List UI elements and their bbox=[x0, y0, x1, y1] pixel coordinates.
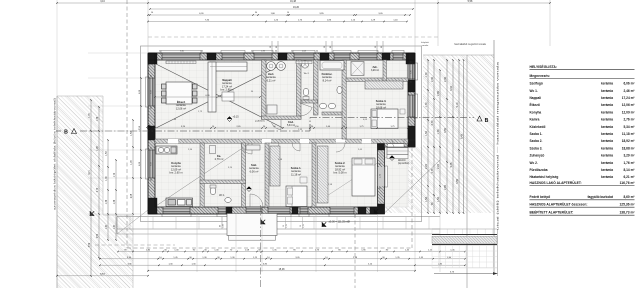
svg-text:5,58: 5,58 bbox=[468, 0, 473, 3]
svg-text:3,16: 3,16 bbox=[100, 1, 105, 3]
entry step bbox=[387, 155, 408, 159]
svg-text:2,15: 2,15 bbox=[303, 224, 305, 228]
svg-text:3,60: 3,60 bbox=[180, 51, 184, 53]
svg-text:HASZNOS LAKÓ ALAPTERÜLET:: HASZNOS LAKÓ ALAPTERÜLET: bbox=[530, 180, 582, 185]
svg-text:Fürdőszoba: Fürdőszoba bbox=[530, 168, 548, 172]
doormat entry bbox=[387, 148, 408, 155]
svg-text:15,48: 15,48 bbox=[279, 269, 285, 271]
svg-text:12,09 m²: 12,09 m² bbox=[622, 110, 635, 114]
svg-text:2,48: 2,48 bbox=[444, 77, 447, 82]
svg-text:Fedett belépő: Fedett belépő bbox=[530, 195, 551, 199]
section axis vertical bbox=[260, 205, 262, 288]
radiators bbox=[166, 61, 196, 64]
svg-text:16,20: 16,20 bbox=[293, 6, 300, 9]
svg-text:kerámia: kerámia bbox=[601, 110, 613, 114]
svg-text:1,98: 1,98 bbox=[97, 146, 99, 151]
svg-text:kiépített: kiépített bbox=[421, 41, 429, 44]
svg-text:1,35: 1,35 bbox=[411, 70, 413, 74]
svg-text:2,03: 2,03 bbox=[302, 51, 306, 53]
level marker bbox=[247, 187, 252, 192]
svg-text:lábtörlő: lábtörlő bbox=[398, 159, 406, 162]
svg-text:2,73: 2,73 bbox=[431, 168, 434, 173]
svg-text:bm: 2,89 m: bm: 2,89 m bbox=[221, 88, 234, 92]
left ext horizontals bbox=[88, 52, 148, 54]
svg-text:30: 30 bbox=[380, 163, 382, 165]
dim 5,73 bbox=[434, 273, 498, 275]
svg-text:vonala: vonala bbox=[422, 45, 429, 47]
bottom dim row 2 bbox=[100, 258, 465, 260]
svg-text:B: B bbox=[64, 130, 68, 136]
svg-text:kerámia: kerámia bbox=[601, 154, 613, 158]
outer wall right bbox=[408, 53, 415, 147]
kitchen counter bottom bbox=[166, 198, 193, 207]
top dim row 2 bbox=[150, 8, 413, 10]
wc1 toilet+sink bbox=[210, 187, 216, 195]
washer circles hszt bbox=[267, 62, 276, 71]
terrace edge lines bottom bbox=[117, 216, 440, 218]
svg-text:Wc 1.: Wc 1. bbox=[530, 89, 538, 93]
svg-text:3,52: 3,52 bbox=[89, 242, 91, 247]
roof diagonal lines bbox=[156, 64, 283, 128]
street-side terrain hatch (right) bbox=[385, 55, 495, 213]
svg-text:3,29 m²: 3,29 m² bbox=[624, 154, 635, 158]
svg-text:kerámia: kerámia bbox=[601, 132, 613, 136]
svg-text:kerámia: kerámia bbox=[601, 89, 613, 93]
pillars bbox=[148, 53, 157, 64]
svg-text:utcai (déli) telekhatárvonal —: utcai (déli) telekhatárvonal — használat… bbox=[496, 61, 500, 230]
window bbox=[162, 53, 200, 60]
wardrobe szoba3 bbox=[365, 81, 403, 89]
svg-text:1,53: 1,53 bbox=[425, 131, 428, 136]
window bbox=[163, 207, 190, 214]
svg-text:18,68 m²: 18,68 m² bbox=[376, 105, 386, 109]
porch step bbox=[229, 236, 276, 241]
svg-text:+0,15: +0,15 bbox=[233, 116, 240, 119]
svg-text:30: 30 bbox=[201, 51, 203, 53]
interior walls bottom row verticals bbox=[200, 143, 204, 207]
svg-text:kerámia: kerámia bbox=[601, 82, 613, 86]
neighbour plot hatch (left) bbox=[57, 96, 133, 288]
svg-text:(lépcsőfok): (lépcsőfok) bbox=[398, 163, 409, 165]
right dim chains bbox=[427, 60, 429, 213]
svg-text:5,34 m²: 5,34 m² bbox=[624, 125, 635, 129]
top dim row 1 bbox=[57, 2, 550, 4]
svg-text:80: 80 bbox=[276, 46, 278, 48]
svg-text:30: 30 bbox=[316, 51, 318, 53]
svg-text:HELYISÉGLISTA:: HELYISÉGLISTA: bbox=[530, 64, 558, 69]
door swing arcs bbox=[250, 194, 263, 207]
interior wall: Zuh bottom bbox=[346, 78, 408, 81]
svg-text:18,68 m²: 18,68 m² bbox=[622, 146, 635, 150]
svg-text:30: 30 bbox=[275, 51, 277, 53]
svg-text:80: 80 bbox=[330, 46, 332, 48]
svg-text:2,73: 2,73 bbox=[97, 187, 99, 192]
svg-text:4,71: 4,71 bbox=[89, 170, 91, 175]
svg-text:1,47: 1,47 bbox=[114, 224, 116, 229]
bowtie markers bbox=[90, 211, 94, 215]
svg-text:kerámia: kerámia bbox=[601, 168, 613, 172]
svg-text:30: 30 bbox=[151, 75, 153, 77]
svg-text:30: 30 bbox=[375, 46, 377, 48]
window bbox=[268, 207, 290, 214]
window bbox=[218, 207, 226, 214]
bed szoba1 bbox=[286, 186, 307, 207]
window bbox=[300, 207, 308, 214]
svg-text:1,70: 1,70 bbox=[437, 129, 440, 134]
svg-text:bm: 5,08 m: bm: 5,08 m bbox=[334, 171, 347, 175]
svg-text:Megnevezés:: Megnevezés: bbox=[530, 74, 551, 78]
wardrobe szoba2 bbox=[318, 146, 329, 203]
svg-text:3,40: 3,40 bbox=[450, 86, 453, 91]
svg-text:125,36 m²: 125,36 m² bbox=[619, 203, 635, 207]
wc2 water heater bbox=[301, 61, 308, 68]
svg-text:Szoba 3.: Szoba 3. bbox=[530, 146, 543, 150]
svg-text:138,73 m²: 138,73 m² bbox=[619, 211, 635, 215]
interior wall: Nappali/Hszt bbox=[262, 60, 267, 119]
svg-text:8,60 m²: 8,60 m² bbox=[624, 195, 635, 199]
interior dim top row bbox=[155, 96, 260, 98]
B marker right bbox=[477, 116, 482, 121]
window bbox=[222, 53, 244, 60]
window bbox=[246, 207, 262, 214]
svg-text:kerámia: kerámia bbox=[601, 146, 613, 150]
section line B-B bbox=[56, 130, 61, 132]
window bbox=[359, 53, 377, 60]
svg-text:1,70: 1,70 bbox=[425, 72, 428, 77]
wc2 toilet bbox=[303, 88, 309, 96]
svg-text:használatból megszűnő vonala: használatból megszűnő vonala bbox=[454, 43, 486, 46]
window bbox=[148, 150, 155, 178]
svg-text:1,76: 1,76 bbox=[131, 160, 133, 165]
coffee table bbox=[222, 92, 234, 101]
svg-text:Közlekedő: Közlekedő bbox=[530, 125, 546, 129]
dashed plot boundary bbox=[126, 0, 128, 248]
hatch top edge bbox=[57, 95, 103, 97]
svg-text:2,76 m²: 2,76 m² bbox=[215, 157, 224, 161]
interior wall: mid horizontal bbox=[155, 139, 408, 143]
notch wall horizontal (entry north) bbox=[378, 140, 416, 147]
svg-text:30: 30 bbox=[270, 46, 272, 48]
svg-text:1,73: 1,73 bbox=[380, 174, 382, 178]
szel closet bbox=[246, 145, 260, 150]
svg-text:3,55: 3,55 bbox=[444, 128, 447, 133]
svg-text:kerámia: kerámia bbox=[601, 118, 613, 122]
svg-text:6,21 m²: 6,21 m² bbox=[624, 175, 635, 179]
window bbox=[334, 53, 350, 60]
svg-text:1,47: 1,47 bbox=[106, 224, 108, 229]
interior wall: bath right bbox=[342, 60, 346, 139]
left window sill dims bbox=[140, 78, 142, 178]
svg-text:kerámia: kerámia bbox=[601, 103, 613, 107]
bath wc bbox=[337, 86, 342, 93]
top dim row 3 bbox=[148, 14, 410, 16]
svg-text:kerámia: kerámia bbox=[601, 139, 613, 143]
svg-text:Nappali: Nappali bbox=[530, 96, 542, 100]
outer wall top bbox=[148, 53, 415, 60]
svg-text:8,45: 8,45 bbox=[461, 134, 464, 139]
svg-text:6,06 m²: 6,06 m² bbox=[250, 169, 259, 173]
outer wall left bbox=[148, 53, 155, 214]
svg-text:1,30: 1,30 bbox=[106, 176, 108, 181]
wall outline edges bbox=[148, 52, 415, 54]
interior wall gaps (doors) bbox=[168, 139, 178, 143]
svg-text:Wc 1.: Wc 1. bbox=[219, 195, 225, 197]
notch wall vertical (entry west) bbox=[378, 140, 385, 214]
svg-text:fagyálló burkolat: fagyálló burkolat bbox=[587, 195, 613, 199]
wardrobe szoba1 bbox=[270, 146, 280, 186]
outer wall bottom bbox=[148, 207, 378, 214]
svg-text:bm: 2,60 m: bm: 2,60 m bbox=[170, 171, 183, 175]
dining table bbox=[166, 82, 192, 104]
svg-text:1,53: 1,53 bbox=[437, 197, 440, 202]
svg-text:kerámia: kerámia bbox=[601, 96, 613, 100]
shower tray bbox=[351, 62, 364, 76]
svg-text:30: 30 bbox=[291, 51, 293, 53]
svg-text:30: 30 bbox=[380, 187, 382, 189]
interior wall: Hszt bottom bbox=[262, 116, 302, 120]
svg-text:2,15: 2,15 bbox=[286, 224, 288, 228]
svg-text:1,36: 1,36 bbox=[114, 199, 116, 204]
svg-text:30: 30 bbox=[411, 81, 413, 83]
eaves outline bbox=[141, 46, 422, 222]
svg-text:6,06 m²: 6,06 m² bbox=[624, 82, 635, 86]
svg-text:±0,00 = 111,25 mBf: ±0,00 = 111,25 mBf bbox=[329, 221, 351, 224]
svg-text:5,45: 5,45 bbox=[450, 162, 453, 167]
window bbox=[254, 53, 272, 60]
svg-text:2,46 m²: 2,46 m² bbox=[624, 89, 635, 93]
interior wall: bath bottom bbox=[322, 112, 342, 115]
svg-text:1,53: 1,53 bbox=[131, 131, 133, 136]
level marker bbox=[147, 125, 152, 130]
svg-text:2,50: 2,50 bbox=[151, 162, 153, 166]
svg-text:1,93: 1,93 bbox=[261, 51, 265, 53]
bottom dim row 3 bbox=[100, 264, 465, 266]
interior wall: Zuh right bbox=[383, 60, 386, 81]
svg-text:2,50: 2,50 bbox=[97, 233, 99, 238]
bottom dim row 1 bbox=[118, 251, 465, 253]
bath sinks bbox=[319, 103, 326, 109]
svg-text:1,76: 1,76 bbox=[89, 113, 91, 118]
svg-text:1,70: 1,70 bbox=[114, 172, 116, 177]
svg-text:30: 30 bbox=[151, 147, 153, 149]
bottom dim row 5 bbox=[57, 275, 148, 277]
svg-text:12,06 m²: 12,06 m² bbox=[622, 103, 635, 107]
svg-text:18,92 m²: 18,92 m² bbox=[622, 139, 635, 143]
pantry shelf bbox=[210, 146, 216, 154]
svg-text:kerámia: kerámia bbox=[601, 125, 613, 129]
svg-text:11,18 m²: 11,18 m² bbox=[291, 172, 301, 176]
svg-text:8,14 m²: 8,14 m² bbox=[624, 168, 635, 172]
svg-text:30: 30 bbox=[411, 61, 413, 63]
svg-text:11,18 m²: 11,18 m² bbox=[622, 132, 635, 136]
svg-text:2,05: 2,05 bbox=[131, 193, 133, 198]
bed szoba2 bbox=[352, 158, 375, 196]
svg-text:8,14 m²: 8,14 m² bbox=[323, 78, 332, 82]
svg-text:B: B bbox=[485, 118, 489, 124]
svg-text:szomszédos lakóépület oldalfal: szomszédos lakóépület oldalfala (közös t… bbox=[53, 98, 57, 210]
interior dim chain bbox=[155, 127, 408, 129]
entry wall window bbox=[378, 167, 385, 186]
wc1 wall bbox=[200, 180, 246, 184]
neighbour wall line bbox=[56, 96, 58, 288]
svg-text:12,06 m²: 12,06 m² bbox=[176, 106, 186, 110]
svg-text:kerámia: kerámia bbox=[601, 175, 613, 179]
svg-text:2,48: 2,48 bbox=[431, 77, 434, 82]
level marker bbox=[390, 156, 395, 161]
window bbox=[393, 53, 403, 60]
svg-text:1,53: 1,53 bbox=[425, 197, 428, 202]
svg-text:2,20: 2,20 bbox=[425, 164, 428, 169]
svg-text:6,21 m²: 6,21 m² bbox=[267, 78, 276, 82]
svg-text:2,90: 2,90 bbox=[444, 185, 447, 190]
svg-text:1,70: 1,70 bbox=[425, 102, 428, 107]
svg-text:2,70: 2,70 bbox=[431, 120, 434, 125]
interior wall: Wc2 bottom bbox=[301, 100, 318, 103]
bed szoba3 bbox=[371, 109, 398, 129]
kitchen counter top bbox=[156, 146, 177, 154]
svg-text:Wc 2.: Wc 2. bbox=[304, 73, 310, 75]
svg-text:30: 30 bbox=[324, 46, 326, 48]
svg-text:1,36: 1,36 bbox=[106, 199, 108, 204]
svg-text:2,65: 2,65 bbox=[437, 91, 440, 96]
interior wall: Hszt/Wc2 bbox=[297, 60, 302, 119]
level marker bbox=[227, 117, 232, 122]
svg-text:30: 30 bbox=[159, 51, 161, 53]
svg-text:5,10: 5,10 bbox=[456, 102, 459, 107]
svg-text:15: 15 bbox=[283, 225, 285, 227]
svg-text:5,34 m²: 5,34 m² bbox=[287, 124, 295, 127]
svg-text:Zuhanyzó: Zuhanyzó bbox=[530, 154, 545, 158]
bathtub horizontal bbox=[320, 61, 344, 71]
porch bbox=[227, 214, 277, 236]
window bbox=[294, 53, 314, 60]
svg-text:3,29 m²: 3,29 m² bbox=[371, 69, 379, 72]
interior wall: Wc2/bath bbox=[314, 60, 319, 115]
svg-text:16,48: 16,48 bbox=[290, 1, 296, 3]
svg-text:Szoba 1.: Szoba 1. bbox=[530, 132, 543, 136]
svg-text:1,36: 1,36 bbox=[97, 116, 99, 121]
svg-text:padlófűtés: padlófűtés bbox=[255, 120, 266, 123]
extension lines bbox=[147, 0, 149, 53]
terrace tick divisions bbox=[129, 217, 131, 230]
svg-text:1,98: 1,98 bbox=[223, 224, 225, 228]
svg-text:Szélfogó: Szélfogó bbox=[530, 82, 543, 86]
svg-text:Wc 2.: Wc 2. bbox=[530, 161, 538, 165]
svg-text:116,76 m²: 116,76 m² bbox=[620, 181, 636, 185]
svg-text:Étkező: Étkező bbox=[530, 102, 540, 107]
bottom right paving block bbox=[431, 229, 433, 235]
svg-text:40: 40 bbox=[220, 225, 222, 227]
svg-text:5,57: 5,57 bbox=[100, 274, 105, 276]
svg-text:2,50: 2,50 bbox=[151, 90, 153, 94]
svg-text:1,76 m²: 1,76 m² bbox=[624, 161, 635, 165]
svg-text:2,20: 2,20 bbox=[437, 164, 440, 169]
svg-text:kerámia: kerámia bbox=[601, 161, 613, 165]
window bbox=[330, 207, 354, 214]
svg-text:30: 30 bbox=[251, 51, 253, 53]
svg-text:Konyha: Konyha bbox=[530, 110, 542, 114]
svg-text:Háztartási helyiség: Háztartási helyiség bbox=[530, 175, 559, 179]
top dim row 4 bbox=[148, 21, 407, 23]
pillar axis dims bbox=[271, 41, 273, 52]
svg-text:2,76 m²: 2,76 m² bbox=[624, 118, 635, 122]
window bbox=[408, 64, 415, 79]
svg-text:30: 30 bbox=[151, 179, 153, 181]
svg-text:15: 15 bbox=[300, 225, 302, 227]
bottom dim row 4 bbox=[148, 270, 415, 272]
building floor field bbox=[155, 60, 408, 207]
svg-text:30: 30 bbox=[151, 107, 153, 109]
svg-text:BEÉPÍTETT ALAPTERÜLET:: BEÉPÍTETT ALAPTERÜLET: bbox=[530, 210, 574, 215]
window bbox=[408, 95, 415, 117]
svg-text:Kamra: Kamra bbox=[530, 118, 540, 122]
svg-text:17,24 m²: 17,24 m² bbox=[622, 96, 635, 100]
svg-text:HASZNOS ALAPTERÜLET összesen:: HASZNOS ALAPTERÜLET összesen: bbox=[530, 203, 588, 207]
svg-text:3,55: 3,55 bbox=[456, 179, 459, 184]
sofa L-shape bbox=[210, 62, 247, 71]
svg-text:Szoba 2.: Szoba 2. bbox=[530, 139, 543, 143]
svg-text:80: 80 bbox=[381, 46, 383, 48]
window bbox=[148, 78, 155, 106]
svg-text:1,53: 1,53 bbox=[106, 151, 108, 156]
paving corner diagonal bbox=[117, 210, 148, 234]
left dim chains bbox=[90, 100, 92, 276]
